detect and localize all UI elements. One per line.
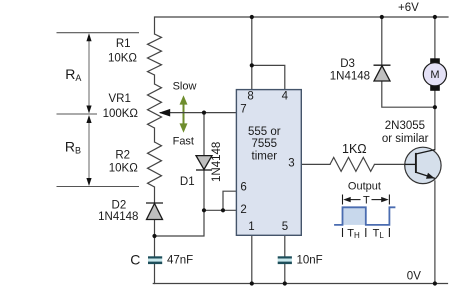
svg-text:1: 1 — [248, 221, 254, 233]
svg-text:D2: D2 — [112, 199, 127, 211]
svg-text:47nF: 47nF — [167, 255, 193, 267]
svg-text:10KΩ: 10KΩ — [109, 162, 138, 174]
svg-text:Output: Output — [348, 181, 381, 193]
svg-text:R2: R2 — [115, 149, 130, 161]
svg-text:1N4148: 1N4148 — [211, 142, 223, 182]
svg-text:7555: 7555 — [252, 138, 278, 150]
svg-text:6: 6 — [240, 181, 246, 193]
svg-text:+6V: +6V — [398, 2, 419, 14]
svg-text:1N4148: 1N4148 — [98, 211, 138, 223]
svg-text:VR1: VR1 — [109, 93, 131, 105]
svg-text:4: 4 — [282, 91, 289, 103]
svg-text:Slow: Slow — [173, 81, 197, 93]
svg-text:2: 2 — [240, 204, 246, 216]
svg-text:10KΩ: 10KΩ — [108, 52, 137, 64]
svg-text:timer: timer — [252, 150, 278, 162]
svg-text:2N3055: 2N3055 — [385, 120, 425, 132]
svg-text:3: 3 — [288, 157, 294, 169]
svg-text:5: 5 — [282, 221, 288, 233]
svg-text:0V: 0V — [407, 271, 421, 283]
svg-text:D1: D1 — [180, 176, 195, 188]
svg-text:100KΩ: 100KΩ — [103, 108, 139, 120]
svg-text:Fast: Fast — [173, 136, 194, 148]
svg-text:R1: R1 — [116, 38, 131, 50]
svg-text:10nF: 10nF — [297, 255, 323, 267]
svg-text:M: M — [430, 69, 439, 81]
svg-text:555 or: 555 or — [248, 126, 281, 138]
svg-text:8: 8 — [247, 91, 253, 103]
svg-text:C: C — [130, 252, 140, 268]
svg-text:T: T — [363, 194, 370, 206]
svg-text:D3: D3 — [340, 58, 355, 70]
svg-text:1N4148: 1N4148 — [330, 70, 370, 82]
svg-text:or similar: or similar — [382, 133, 429, 145]
svg-text:7: 7 — [240, 103, 246, 115]
svg-text:1KΩ: 1KΩ — [342, 142, 367, 156]
